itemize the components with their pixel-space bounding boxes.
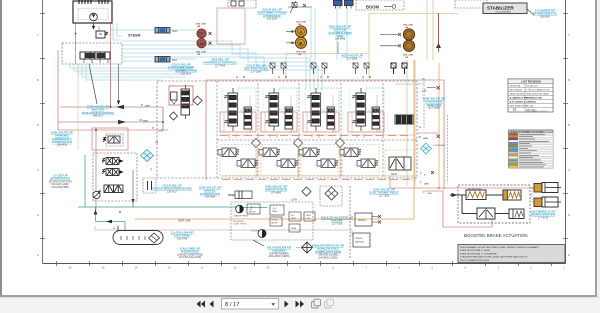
work section 2 port marks [270, 134, 277, 138]
svg-text:HIGH: HIGH [358, 218, 366, 222]
svg-text:B: B [299, 41, 302, 46]
svg-text:BOOM: BOOM [366, 4, 380, 9]
svg-text:SEE LINE: SEE LINE [403, 55, 414, 57]
solenoid block SB1 [334, 0, 343, 6]
svg-text:LS: LS [155, 140, 158, 144]
svg-text:LS: LS [422, 89, 427, 93]
frame tick labels right [568, 33, 570, 257]
svg-text:HB: HB [197, 54, 201, 56]
label brake master cyl [531, 210, 556, 220]
svg-text:A: A [236, 75, 238, 79]
page copy icon 2 disabled [325, 299, 334, 308]
svg-text:MAIN: MAIN [143, 120, 149, 123]
svg-text:HB: HB [405, 57, 409, 59]
svg-text:COMPL PRESS: COMPL PRESS [233, 224, 247, 226]
svg-text:CROSSMEMBER: CROSSMEMBER [495, 12, 511, 14]
svg-text:STEER: STEER [128, 34, 141, 38]
svg-text:GAUGE: GAUGE [249, 211, 257, 214]
wire teal tank line [78, 155, 267, 231]
svg-text:ADJ+1935 (KxEPA): ADJ+1935 (KxEPA) [269, 255, 290, 258]
section internal red lines [222, 88, 388, 132]
svg-text:A: A [278, 75, 280, 79]
selector spool V3 [104, 185, 123, 193]
page bottom edge [0, 295, 597, 297]
page number input [222, 299, 279, 310]
label parking brake [51, 131, 73, 147]
valve bank outer dashed box [157, 81, 417, 178]
svg-text:HB: HB [405, 27, 409, 29]
svg-text:TANK: TANK [272, 210, 278, 213]
svg-text:P/N SCHEMATIC (XXXXXX): P/N SCHEMATIC (XXXXXX) [526, 110, 548, 113]
svg-text:SEAT: SEAT [391, 173, 398, 176]
port label row bottom [222, 179, 410, 181]
stabilizer dashed box [455, 0, 487, 8]
work section 3 red box [303, 112, 339, 132]
oil level gauge box [247, 204, 260, 214]
leader line stabilizer [527, 9, 534, 15]
svg-text:MODE: MODE [272, 223, 279, 225]
work section 4 port marks [357, 134, 364, 138]
svg-text:TRBO: TRBO [291, 218, 297, 220]
color legend table [509, 130, 554, 168]
svg-text:(174,000 GALLONS): (174,000 GALLONS) [179, 256, 201, 259]
svg-text:127-7308: 127-7308 [332, 223, 343, 226]
svg-text:CHANGE PRESS: CHANGE PRESS [233, 215, 249, 218]
frame tick labels left [37, 33, 39, 257]
label valve boom [175, 66, 197, 76]
frame tick marks left [40, 14, 45, 239]
svg-text:MAIN: MAIN [427, 192, 433, 195]
work section 1 red box [220, 112, 256, 132]
quick coupler S0 red circle [197, 39, 206, 48]
svg-text:8 / 17: 8 / 17 [225, 302, 240, 308]
wire red bank boundary and LS return [206, 80, 535, 227]
svg-text:P: P [419, 135, 421, 139]
svg-text:TRBO: TRBO [306, 215, 312, 217]
label sel hydraulic control [203, 58, 236, 68]
inlet check diamond [193, 96, 202, 105]
brake cylinder 1 [534, 184, 542, 193]
work section 1 port marks [229, 134, 236, 138]
svg-text:IF ECO SCHEME WITH GOES.: IF ECO SCHEME WITH GOES. [460, 260, 490, 262]
coupler B tan circle [295, 37, 306, 48]
label hydrostat [49, 174, 72, 189]
inlet section divider [216, 81, 218, 178]
svg-text:B: B [243, 75, 245, 79]
work section 2 red box [261, 112, 297, 132]
svg-text:SEE LINE: SEE LINE [403, 25, 414, 27]
KDI turbo box [289, 212, 301, 221]
svg-text:MAIN: MAIN [424, 183, 430, 186]
brake cyl dashed connectors [530, 188, 534, 203]
tank baffle ticks [121, 236, 145, 240]
hose H1 [155, 28, 178, 34]
svg-text:(127-1380): (127-1380) [428, 107, 440, 110]
brake release dashed box [93, 153, 137, 201]
svg-text:MAIN: MAIN [145, 105, 151, 108]
accumulator dashed box [143, 178, 156, 193]
maroon stabilizer drop [438, 13, 440, 52]
check diamond 1 [252, 139, 261, 148]
port label row mid [220, 135, 408, 137]
inlet check diamond 2 [170, 112, 178, 120]
svg-text:LOW: LOW [291, 198, 297, 202]
svg-text:206-4150: 206-4150 [57, 144, 68, 147]
svg-text:157-4630: 157-4630 [271, 192, 282, 195]
bottom row tan section boxes [220, 145, 414, 177]
check diamond small [302, 187, 311, 196]
pilot valve lower 4 [357, 159, 378, 168]
steer priority dashed box [62, 43, 122, 64]
quick coupler TF1 red circle [197, 29, 206, 38]
norm modes box [270, 217, 282, 226]
svg-text:THIS SCHEMATIC IS FOR THE 75XE: THIS SCHEMATIC IS FOR THE 75XEM, 75XEM -… [460, 246, 540, 249]
inlet pilot element [171, 92, 178, 100]
svg-text:T: T [150, 168, 152, 172]
wire tan pilot lines [219, 0, 458, 186]
pilot solenoid pair S3 [353, 63, 369, 74]
junction arrows on mains [94, 43, 441, 215]
work section 4 spool [352, 88, 366, 131]
pilot valve upper 2 [259, 148, 280, 157]
label hyd tank small [171, 231, 194, 241]
orifice gauge circle [93, 191, 100, 198]
svg-text:TORQUE AT SEAT SWITCH. WILL GU: TORQUE AT SEAT SWITCH. WILL GUIDE UNITS … [460, 256, 528, 259]
last page button [296, 301, 305, 308]
label 49 state [321, 216, 353, 226]
svg-text:KDI: KDI [291, 215, 295, 217]
pilot valve upper 4 [340, 148, 361, 157]
svg-text:126-6789: 126-6789 [177, 238, 188, 241]
svg-text:GEAR (XXXX) GB) GAWM: GEAR (XXXX) GB) GAWM [526, 92, 549, 95]
leader line disconnect label [290, 1, 296, 13]
label master brake [82, 105, 114, 118]
label section valve [244, 64, 268, 74]
parking brake valve Q1 [106, 134, 123, 146]
work section 2 spool [265, 88, 279, 131]
pump unit P1 box [73, 1, 112, 23]
svg-text:BOOSTED BRAKE ACTUATION: BOOSTED BRAKE ACTUATION [464, 233, 528, 238]
black arrow line mid [132, 170, 134, 207]
junction dots [95, 129, 97, 131]
fuel diamond with cross [302, 242, 313, 253]
bank top A-B port dots [236, 75, 371, 79]
svg-text:A: A [362, 75, 364, 79]
brake valve lower [477, 208, 495, 219]
label swivel hydraulics [199, 186, 221, 199]
brake booster spring element [466, 190, 486, 200]
BOOM dashed box [356, 0, 404, 10]
LS control valve below pump [96, 31, 105, 38]
label hydraulic gallons [177, 247, 203, 260]
svg-text:T: T [422, 78, 424, 82]
work section 4 blue pilot box [366, 88, 384, 110]
svg-text:A: A [320, 75, 322, 79]
engine micro labels [233, 215, 263, 233]
work section 3 spool [307, 88, 321, 131]
filter diamond cyan big [141, 150, 154, 162]
svg-text:CASE: CASE [291, 227, 297, 230]
brake accumulator spring [503, 190, 521, 200]
scavenge pump circle [258, 230, 266, 238]
svg-text:KDI: KDI [273, 208, 277, 210]
coupler AB micro labels [296, 22, 307, 57]
drawing frame bottom border [43, 263, 566, 265]
aux horizontal valve [395, 115, 413, 124]
engine coupling hatch left [79, 0, 91, 4]
svg-text:PLATE UP (PIN DUAL Y) CONVERTE: PLATE UP (PIN DUAL Y) CONVERTED [460, 252, 497, 255]
svg-text:961F: 961F [172, 29, 178, 33]
coupler pair right tan circles [403, 29, 414, 40]
svg-text:206-0967: 206-0967 [540, 16, 551, 19]
red box top [217, 8, 245, 44]
svg-text:P/N 2AL-1017: P/N 2AL-1017 [526, 84, 538, 87]
svg-text:CHG: CHG [306, 218, 311, 220]
release valve V1 [102, 158, 123, 165]
breather diamond dashed box [320, 186, 342, 206]
svg-text:127-0088: 127-0088 [347, 57, 358, 60]
svg-text:VENT LINE: VENT LINE [178, 220, 191, 223]
top dashed box disconnect [228, 0, 256, 8]
work section 1 spool [224, 88, 238, 131]
label back pressure [152, 184, 192, 194]
svg-text:(XD-GXD)(7MB): (XD-GXD)(7MB) [51, 186, 69, 189]
label stabilizer cyl [533, 9, 557, 19]
svg-text:HB: HB [197, 26, 201, 28]
svg-text:B: B [327, 75, 329, 79]
pilot valve upper 1 [218, 148, 239, 157]
solenoid block SB2 [345, 0, 354, 6]
label hydraulic half [168, 63, 195, 73]
svg-text:MAIN: MAIN [423, 137, 429, 140]
svg-text:LAST REVISIONS: LAST REVISIONS [521, 81, 541, 84]
svg-text:P: P [419, 126, 421, 130]
svg-text:127-7828: 127-7828 [379, 195, 390, 198]
check diamond 2 [294, 139, 303, 148]
svg-text:GAL MGALWN: GAL MGALWN [510, 88, 523, 91]
svg-text:127-1380: 127-1380 [251, 71, 262, 74]
HIGH flow box [355, 213, 372, 226]
svg-text:NORM: NORM [272, 220, 278, 222]
label check cold [265, 185, 287, 195]
work section 4 red box [348, 112, 384, 132]
F filtered diamond [421, 143, 432, 154]
svg-text:SEE LINE: SEE LINE [296, 22, 307, 24]
mid row boundary [217, 139, 417, 141]
label aux filter [341, 54, 362, 61]
drawing frame right border [565, 0, 567, 264]
wire red pressure network left [58, 9, 168, 211]
work section 3 blue pilot box [321, 88, 339, 110]
temp sender circle [236, 205, 244, 213]
label kohler kps [312, 244, 344, 260]
work section 2 compensator [285, 107, 293, 129]
steer ports ticks [84, 59, 108, 63]
pilot valve lower 1 [237, 159, 258, 168]
svg-text:B1A: B1A [172, 58, 177, 62]
svg-text:GAWM GALWNG: GAWM GALWNG [510, 92, 525, 95]
label hydraulic remotes [423, 97, 445, 110]
turbo charge box [304, 212, 315, 221]
work section 2 blue pilot box [279, 88, 297, 110]
work section 3 compensator [327, 107, 335, 129]
work section 4 compensator [372, 107, 380, 129]
wheel manual box [353, 233, 370, 247]
coupler tiny labels [196, 24, 207, 57]
svg-text:P: P [152, 126, 154, 130]
brake master cylinder symbol [235, 191, 252, 199]
first page button [197, 301, 206, 308]
note box [458, 245, 565, 263]
hose H2 [155, 57, 177, 63]
inlet red comp box [169, 86, 193, 105]
svg-text:177-8739: 177-8739 [538, 217, 549, 220]
wire pink case-drain line [95, 226, 352, 236]
dashed split line [349, 186, 351, 258]
page copy icon 1 [312, 299, 321, 308]
svg-text:HB: HB [298, 54, 302, 56]
frame tick marks right [563, 14, 568, 239]
pilot solenoid pair S1 [270, 63, 286, 74]
leader line pump to label [89, 64, 97, 104]
svg-text:126-0614: 126-0614 [181, 73, 192, 76]
coupler AB green dots [291, 30, 293, 32]
pilot solenoid pair S2 [311, 63, 327, 74]
svg-text:SEE LINE: SEE LINE [196, 52, 207, 54]
svg-text:4AL GAL: 4AL GAL [526, 104, 534, 107]
svg-text:STABILIZER: STABILIZER [487, 6, 514, 11]
pilot solenoid pair S4 [391, 63, 407, 74]
label electronic pilot [369, 188, 398, 198]
work section 1 compensator [244, 107, 252, 129]
svg-text:HB: HB [298, 24, 302, 26]
svg-text:HYDRAULIC 9GM: HYDRAULIC 9GM [526, 96, 542, 99]
pump circle [90, 13, 98, 21]
tank strainer diamond [149, 233, 160, 243]
brake feed line [450, 194, 509, 214]
wire pale-blue steer bundle [70, 6, 347, 90]
seat support valve [389, 157, 411, 176]
svg-text:248-7217: 248-7217 [93, 115, 104, 118]
svg-text:P: P [141, 103, 143, 107]
coupler A tan circle [295, 26, 306, 37]
frame tick marks bottom [57, 261, 552, 266]
wire black P and LS mains [58, 45, 163, 150]
pilot valve lower 2 [277, 159, 298, 168]
pump drain arrow [93, 23, 95, 27]
svg-text:TF: TF [199, 32, 203, 36]
svg-text:M: M [113, 228, 115, 230]
svg-text:T: T [420, 181, 422, 185]
prev page button [210, 301, 214, 308]
steering orbital valve [80, 52, 110, 59]
label kohler engines [267, 246, 292, 259]
svg-text:126-1214: 126-1214 [267, 18, 278, 21]
coupler X marks [209, 32, 212, 45]
coupler right X marks [380, 33, 401, 47]
STABILIZER label box [483, 3, 527, 14]
steer drop line [118, 64, 120, 104]
top center fittings [288, 3, 312, 8]
svg-text:GALWN GAL: GALWN GAL [510, 84, 521, 87]
svg-text:S0: S0 [200, 42, 204, 46]
svg-text:T: T [420, 172, 422, 176]
work section 3 port marks [312, 134, 319, 138]
svg-text:GAWMGNL: GAWMGNL [526, 100, 537, 103]
label system accumulator [328, 25, 352, 41]
svg-text:4.77M (140 GAWM) P/N HG: 4.77M (140 GAWM) P/N HG [526, 88, 550, 91]
page right edge [595, 0, 597, 297]
svg-text:F FILTERED: F FILTERED [433, 145, 446, 147]
svg-text:127-7408: 127-7408 [215, 65, 226, 68]
KDI tank box [270, 205, 284, 215]
bank sections generated [218, 88, 448, 183]
revisions table [508, 79, 553, 112]
inlet compensator spool [181, 85, 190, 119]
brake damper lower [509, 209, 524, 219]
svg-text:WHEEL: WHEEL [355, 238, 364, 240]
svg-text:135-7617: 135-7617 [167, 191, 178, 194]
wire orange vent lines [135, 60, 439, 219]
case box [289, 224, 300, 232]
svg-text:(XH-0B02 (12WD): (XH-0B02 (12WD) [318, 256, 338, 259]
svg-text:SEE LINE: SEE LINE [196, 24, 207, 26]
tank T1 oval [113, 231, 163, 245]
svg-text:MANUAL: MANUAL [355, 241, 365, 244]
svg-text:126-5498: 126-5498 [335, 38, 346, 41]
engine monitor dashed box [231, 202, 313, 240]
label disconnect pump [257, 8, 286, 21]
drawing frame left border [42, 0, 44, 264]
release valve V2 [102, 169, 123, 176]
X ports [372, 215, 381, 224]
toolbar background [0, 297, 600, 313]
boosted brake dashed box [458, 185, 530, 223]
svg-text:B: B [369, 75, 371, 79]
next page button [285, 301, 289, 308]
svg-text:4L 4T GAWMGL 4: 4L 4T GAWMGL 4 [510, 100, 527, 103]
svg-text:B: B [285, 75, 287, 79]
brake cylinder 2 [534, 198, 542, 207]
engine coupling hatch right [99, 0, 108, 4]
svg-text:PLATE UP (PIN DUAL Y) 4XEM: PLATE UP (PIN DUAL Y) 4XEM [460, 249, 490, 252]
section dividers [258, 83, 383, 178]
svg-text:P: P [423, 190, 425, 194]
pilot valve lower 3 [317, 159, 338, 168]
check diamond 3 [336, 139, 345, 148]
svg-text:SEE LINE: SEE LINE [296, 52, 307, 54]
leader line tank label [253, 240, 264, 246]
svg-text:154-7608: 154-7608 [205, 196, 216, 199]
pilot valve upper 3 [299, 148, 320, 157]
work section 1 blue pilot box [238, 88, 256, 110]
page left gray edge [0, 0, 2, 297]
